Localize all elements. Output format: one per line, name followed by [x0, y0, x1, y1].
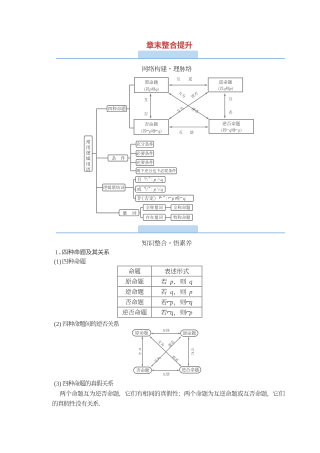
branch wire to 逻辑联结词 [96, 187, 102, 189]
root box 常用逻辑用语 (vertical) [84, 136, 92, 171]
table header 命题 [128, 268, 140, 274]
table row2 逆命题 [125, 289, 143, 295]
label 逆否 upper-right [190, 91, 198, 98]
connector 四种命题 to sub-diagram [127, 108, 130, 110]
box 或∨ p∨q [136, 186, 166, 192]
section1 rule [56, 58, 285, 60]
box 逻辑联结词 [103, 184, 126, 191]
box 既不充分也不必要条件 [136, 168, 176, 174]
diagonal2 TR-BL [151, 337, 181, 367]
paragraph line2 [53, 401, 100, 407]
heading 1. 四种命题及其关系 [56, 250, 61, 254]
diagonal2 TL-BR [150, 336, 181, 366]
box 充分条件 [136, 141, 154, 147]
label 互逆 bottom2 [163, 372, 170, 375]
branch wire to 条件 [96, 157, 108, 159]
table row3 若¬p则¬q [161, 299, 192, 306]
label 互 right [229, 97, 233, 100]
table row2 若q则p [161, 289, 192, 296]
trunk wire [95, 109, 97, 213]
table row1 原命题 [125, 278, 143, 284]
arrow top2 互逆 [151, 332, 180, 334]
label 互逆 top2 [163, 329, 170, 332]
label 逆 top [188, 77, 192, 81]
table row1 若p则q [161, 279, 192, 286]
arrow 互逆 bottom [169, 126, 208, 128]
box 量词 [119, 210, 139, 216]
branch wire to 四种命题 [96, 108, 107, 110]
wire 存在量词-特称命题 [165, 216, 171, 218]
box 全称命题 [171, 204, 193, 210]
paragraph line1 [60, 391, 285, 397]
label2 逆否 upper-right [168, 340, 175, 347]
box 全称量词 [143, 204, 165, 210]
label 否 left [144, 112, 148, 116]
section1 tab [138, 51, 198, 59]
wire 全称量词-全称命题 [165, 206, 171, 208]
label2 互为 lower-left [154, 356, 161, 363]
section2 tab [138, 225, 198, 233]
label 互为 lower-left [176, 106, 184, 113]
box 非(否定) ¬p或¬q [136, 195, 194, 201]
bracket wire 条件 children [128, 157, 131, 159]
arrow bottom2 互逆 [152, 369, 179, 371]
section1 heading 网络构建・理脉络 [142, 66, 191, 72]
label2 互为 upper-left [157, 340, 164, 347]
label2 逆否 lower-right [172, 355, 179, 362]
branch wire to 量词 [96, 212, 119, 214]
box 逆否命题 (若¬q则¬p) [209, 119, 254, 133]
box 且∧ p∧q [136, 176, 166, 182]
diagonal arrow TR-BL [169, 92, 208, 119]
subheading (2)四种命题间的逆否关系 [54, 322, 61, 328]
subheading (1)四种命题 [54, 259, 61, 265]
arrow 互否 left [150, 94, 152, 119]
box 四种命题 [107, 106, 127, 112]
label 逆否 lower-right [191, 107, 199, 114]
box 存在量词 [143, 214, 165, 220]
arrow right2 互否 [188, 337, 190, 366]
label 互 left [144, 98, 148, 101]
label 互为 upper-left [178, 91, 186, 98]
box 必要条件 [136, 150, 154, 156]
label 互否 left2 [138, 348, 141, 351]
section2 rule [56, 232, 285, 234]
diagonal arrow TL-BR [169, 93, 209, 119]
box 特称命题 [171, 214, 193, 220]
stadium 原命题 [132, 330, 151, 337]
red chapter title 章末整合提升 [146, 41, 192, 49]
table header 表述形式 [165, 268, 189, 274]
root to trunk wire [92, 153, 96, 155]
label 互否 right2 [191, 348, 194, 351]
table frame [118, 266, 202, 317]
stadium 否命题 [134, 367, 152, 374]
box 原命题 (若p则q) [134, 78, 168, 93]
arrow 互否 right [224, 94, 226, 119]
subheading (3)四种命题的真假关系 [54, 381, 61, 387]
table row3 否命题 [125, 299, 143, 305]
bracket wire 逻辑联结词 children [125, 187, 133, 189]
bracket wire 量词 children [139, 212, 141, 214]
table row4 逆否命题 [122, 309, 146, 315]
label 互 bottom [179, 131, 183, 134]
label 否 right [229, 111, 233, 115]
table row4 若¬q则¬p [161, 309, 192, 316]
box 逆命题 (若q则p) [208, 78, 243, 92]
section2 heading 知识整合・悟素养 [142, 240, 192, 246]
box 充要条件 [136, 159, 154, 165]
arrow 互逆 top [169, 84, 207, 86]
stadium 逆否命题 [180, 366, 201, 373]
label 互 top [177, 77, 181, 80]
arrow left2 互否 [141, 337, 143, 367]
box 条件 [108, 155, 128, 161]
stadium 逆命题 [181, 330, 198, 337]
label 逆 bottom [190, 131, 194, 135]
box 否命题 (若¬p则¬q) [134, 119, 169, 134]
